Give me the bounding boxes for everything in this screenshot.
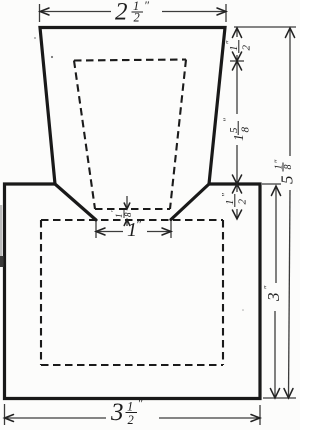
svg-text:5: 5	[278, 176, 297, 185]
svg-text:2: 2	[241, 45, 253, 51]
svg-text:″: ″	[222, 118, 232, 122]
svg-text:1: 1	[127, 400, 133, 414]
svg-text:2: 2	[134, 11, 140, 25]
svg-text:3: 3	[264, 293, 283, 303]
svg-text:″: ″	[221, 193, 231, 197]
svg-text:1: 1	[228, 46, 240, 52]
svg-text:8: 8	[240, 127, 252, 133]
svg-text:″: ″	[225, 41, 235, 45]
svg-text:1: 1	[232, 134, 247, 141]
svg-text:3: 3	[110, 399, 124, 426]
svg-text:2: 2	[237, 199, 249, 205]
svg-text:2: 2	[115, 0, 128, 26]
svg-text:8: 8	[283, 165, 294, 170]
svg-text:″: ″	[263, 286, 273, 290]
svg-text:8: 8	[123, 212, 133, 217]
svg-text:″: ″	[273, 160, 283, 164]
svg-text:1: 1	[224, 200, 236, 206]
svg-text:2: 2	[128, 413, 134, 427]
